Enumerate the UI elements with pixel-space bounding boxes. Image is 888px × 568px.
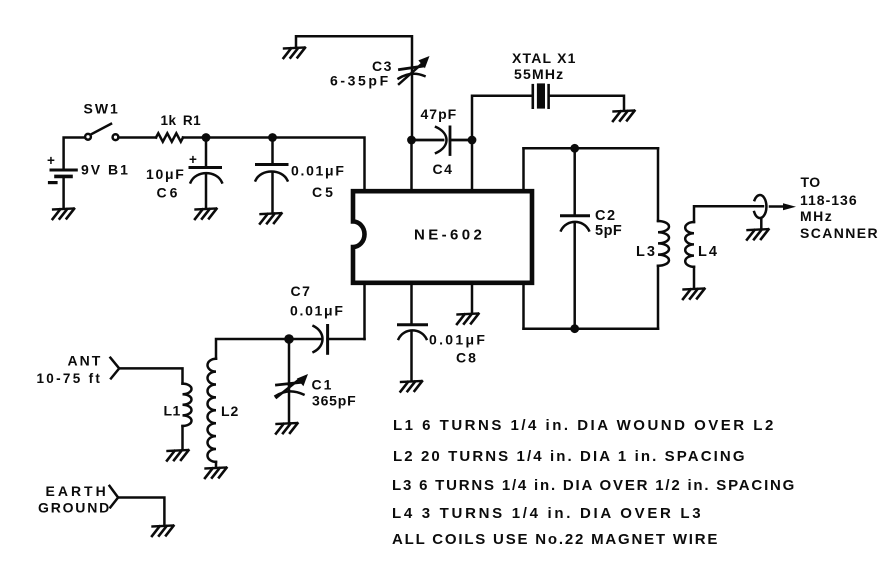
op-amp U1 NE-602 IC body [353,191,532,283]
wire L2 to ground [215,462,218,467]
ground pin3 [457,314,479,325]
inductor L4 [685,222,694,267]
wire switch to R1 [119,136,157,139]
node junction C7/C1 [284,334,294,344]
node junction C5 [268,133,277,142]
wire C8 to ground [410,332,413,381]
capacitor C2 5pF [562,214,589,217]
svg-text:1k R1: 1k R1 [161,113,202,128]
inductor L1 [183,384,192,426]
wire C2 bottom [573,223,576,329]
wire junction to C5 [271,138,274,164]
wire loop top rail [524,147,659,150]
wire ANT to L1 [119,368,182,383]
node ANT terminal [110,358,119,379]
arrow to scanner [770,205,784,208]
wire loop bottom rail [524,327,659,330]
svg-text:C8: C8 [456,350,478,366]
svg-text:0.01μF: 0.01μF [291,163,346,179]
crystal X1 [531,85,534,108]
node junction C2 top [570,144,579,153]
svg-text:SW1: SW1 [84,101,120,117]
wire loop right bottom [657,266,660,329]
ground top-left [284,48,306,59]
svg-text:0.01μF: 0.01μF [290,303,345,319]
capacitor C6 10uF [190,166,221,169]
C1 arrow [277,380,300,398]
svg-text:C1: C1 [312,377,334,393]
svg-text:XTAL X1: XTAL X1 [512,50,577,66]
wire pin bottom2 to C8 [410,283,413,324]
resistor R1 1k [156,133,183,141]
wire pin bottom4 to loop rail [522,283,525,329]
capacitor C1 (variable) plates [277,382,302,385]
wire pin bottom3 to ground [471,283,474,313]
svg-text:10-75 ft: 10-75 ft [37,371,103,386]
svg-text:C2: C2 [595,208,617,224]
svg-text:MHz: MHz [800,208,833,224]
wire L4 top to connector [694,206,763,222]
wire C1 to ground [288,385,291,423]
wire L4 bottom to ground [693,267,696,288]
wire C6 to ground [205,175,208,208]
switch SW1 [85,134,91,140]
svg-text:55MHz: 55MHz [514,66,564,82]
wire L1 to ground [181,426,184,450]
svg-text:L3: L3 [636,244,657,260]
svg-text:ALL COILS USE No.22 MAGNET WIR: ALL COILS USE No.22 MAGNET WIRE [392,531,719,548]
battery B1 plates [51,169,76,172]
svg-text:C5: C5 [312,184,336,200]
wire junction to C6 [205,138,208,167]
wire pin top2 to IC [410,140,413,189]
capacitor C7 0.01uF [326,326,329,354]
svg-text:10μF: 10μF [146,166,186,182]
inductor L3 [658,221,669,266]
wire junction to L2 corner [216,339,289,359]
wire battery to ground [62,178,65,208]
wire R1 to power corner [183,138,365,190]
ground L4 [683,289,705,300]
svg-text:GROUND: GROUND [38,500,111,516]
svg-text:C6: C6 [157,185,181,201]
ground L2 [205,468,227,479]
wire C7 left segment [289,338,321,341]
node junction C4 left [407,136,416,145]
svg-text:L1 6 TURNS 1/4 in. DIA WOUND: L1 6 TURNS 1/4 in. DIA WOUND OVER L2 [393,417,776,434]
battery B1 wire up [64,138,86,169]
wire top ground to C3 top [296,36,412,140]
capacitor C3 (trimmer) plates [400,66,423,69]
wire junction up to crystal line [472,96,531,140]
wire junction to C4 [412,139,444,142]
wire crystal to ground [550,96,624,110]
ground connector [747,229,769,240]
ground earth [152,526,174,537]
ground C6 [195,209,217,220]
svg-text:L4 3 TURNS 1/4 in. DIA OVER L: L4 3 TURNS 1/4 in. DIA OVER L3 [392,505,703,522]
capacitor C4 47pF [436,127,447,153]
svg-text:TO: TO [801,174,821,190]
wire C2 top [573,148,576,215]
battery - sign [50,181,57,184]
wire earth to ground [118,498,164,526]
capacitor C8 0.01uF [399,323,427,326]
inductor L2 [207,359,216,462]
node junction C2 bottom [570,324,579,333]
wire C5 to ground [271,172,274,213]
wire connector tail [760,218,763,228]
wire pin top3 to IC [471,140,474,189]
svg-text:L1: L1 [164,403,181,419]
svg-text:+: + [47,153,55,168]
svg-text:NE-602: NE-602 [414,227,485,244]
node junction C6 [202,133,211,142]
ground crystal [613,111,635,122]
node EARTH GROUND terminal [110,486,119,508]
svg-text:SCANNER: SCANNER [800,225,879,241]
ground C8 [401,381,423,392]
svg-text:47pF: 47pF [421,106,458,122]
C3 arrow [399,65,421,85]
svg-text:L2: L2 [221,403,239,419]
svg-text:ANT: ANT [68,353,103,369]
svg-text:L4: L4 [698,244,719,260]
wire C7 right segment [328,338,365,341]
svg-text:+: + [189,152,197,167]
svg-text:365pF: 365pF [312,393,356,409]
wire pin bottom1 to C7 line [363,283,366,339]
svg-text:C7: C7 [291,283,312,299]
ground C1 [276,423,298,434]
svg-text:118-136: 118-136 [800,192,858,208]
svg-text:EARTH: EARTH [46,483,109,499]
svg-text:L2 20 TURNS 1/4 in. DIA 1 in: L2 20 TURNS 1/4 in. DIA 1 in. SPACING [393,448,747,465]
wire loop right top [657,148,660,221]
wire junction down to C1 [288,339,291,385]
node junction C4 right [468,136,477,145]
ground battery [53,209,75,220]
svg-text:5pF: 5pF [595,223,622,239]
svg-text:L3 6 TURNS 1/4 in. DIA OVER 1: L3 6 TURNS 1/4 in. DIA OVER 1/2 in. SPAC… [392,477,796,494]
wire pin top4 to loop rail [522,148,525,189]
svg-text:9V B1: 9V B1 [81,162,130,178]
svg-text:0.01μF: 0.01μF [429,332,487,348]
svg-text:C4: C4 [433,161,454,177]
ground C5 [260,213,282,224]
svg-text:6-35pF: 6-35pF [330,73,391,89]
ground L1 [167,450,189,461]
capacitor C5 0.01uF [257,163,288,166]
connector J1 phono jack [754,195,766,218]
